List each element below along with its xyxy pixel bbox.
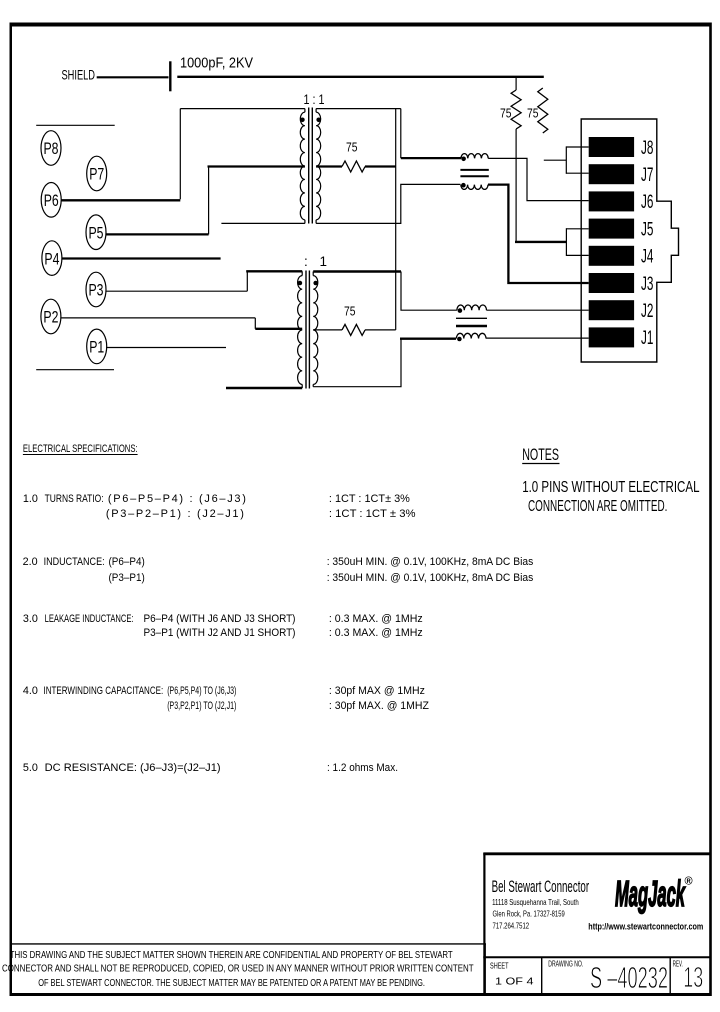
- transformer T2 primary winding: [298, 276, 303, 385]
- wire P5 to T1 primary center tap: [106, 233, 209, 235]
- pin P6: [41, 183, 61, 218]
- svg-text:CONNECTION ARE OMITTED.: CONNECTION ARE OMITTED.: [528, 498, 667, 515]
- wire unconnected segment below P1: [36, 369, 114, 371]
- svg-text:OF BEL STEWART CONNECTOR. THE: OF BEL STEWART CONNECTOR. THE SUBJECT MA…: [38, 978, 425, 989]
- svg-text:J2: J2: [641, 300, 653, 322]
- resistor R2 75 ohm shunt right: [538, 88, 548, 133]
- svg-text:ELECTRICAL SPECIFICATIONS:: ELECTRICAL SPECIFICATIONS:: [23, 443, 138, 455]
- svg-text:http://www.stewartconnector.co: http://www.stewartconnector.com: [588, 922, 703, 933]
- svg-text:S –40232: S –40232: [590, 960, 668, 995]
- choke L2 top phasing dot: [458, 308, 463, 313]
- svg-text:SHIELD: SHIELD: [62, 67, 96, 83]
- wire top rail (capacitor to resistors): [177, 76, 544, 78]
- svg-text:(P6–P5–P4) : (J6–J3): (P6–P5–P4) : (J6–J3): [108, 493, 246, 505]
- svg-text:717.264.7512: 717.264.7512: [493, 921, 530, 931]
- wire P1 unconnected: [106, 347, 226, 349]
- svg-text:INDUCTANCE:: INDUCTANCE:: [44, 556, 105, 568]
- wire R1 to J5-J4 bracket: [515, 129, 517, 242]
- wire choke L1 top to pin J6: [488, 158, 589, 200]
- svg-text:Glen Rock, Pa. 17327-8159: Glen Rock, Pa. 17327-8159: [493, 909, 565, 919]
- wire node B down to choke L2 top: [401, 272, 457, 311]
- svg-text:: 1CT : 1CT± 3%: : 1CT : 1CT± 3%: [329, 493, 410, 505]
- transformer T1 core: [308, 108, 310, 224]
- pin J8: [589, 137, 654, 159]
- svg-text:LEAKAGE INDUCTANCE:: LEAKAGE INDUCTANCE:: [45, 613, 134, 625]
- svg-text:J1: J1: [641, 327, 653, 349]
- wire T1 secondary top to choke L1 top: [400, 109, 402, 159]
- title block frame: [483, 852, 711, 855]
- resistor R3 75 ohm across T1 secondary: [316, 165, 342, 167]
- wire T2 secondary bottom to choke L2 bottom: [312, 384, 314, 386]
- svg-text:P7: P7: [89, 165, 104, 184]
- wire vertical bus V1: [395, 109, 397, 330]
- choke L1 core: [460, 169, 488, 171]
- transformer T2 primary phasing dot: [298, 281, 303, 286]
- wire unconnected segment above P8: [36, 124, 115, 126]
- wire P6 to T1 primary top: [61, 199, 180, 201]
- svg-text::: :: [304, 254, 308, 269]
- svg-text:75: 75: [346, 140, 358, 155]
- svg-text:1000pF, 2KV: 1000pF, 2KV: [180, 56, 253, 72]
- svg-text:NOTES: NOTES: [522, 445, 559, 464]
- svg-text:: 0.3 MAX. @ 1MHz: : 0.3 MAX. @ 1MHz: [329, 627, 423, 639]
- svg-text:J5: J5: [641, 218, 653, 240]
- transformer T1 primary phasing dot: [300, 118, 305, 123]
- svg-text:P3: P3: [89, 281, 104, 300]
- transformer T1 secondary phasing dot: [316, 118, 321, 123]
- svg-text:(P6–P4): (P6–P4): [109, 556, 145, 568]
- svg-text:5.0: 5.0: [23, 762, 38, 774]
- choke L1 bottom phasing dot: [461, 183, 466, 188]
- svg-text:DRAWING NO.: DRAWING NO.: [548, 960, 583, 969]
- pin J3: [589, 273, 654, 295]
- svg-text:: 30pf MAX @ 1MHz: : 30pf MAX @ 1MHz: [329, 685, 425, 697]
- svg-text:13: 13: [683, 962, 703, 994]
- svg-text:75: 75: [344, 303, 356, 318]
- svg-text:P6: P6: [44, 191, 59, 210]
- svg-text:TURNS RATIO:: TURNS RATIO:: [45, 493, 104, 505]
- svg-text:2.0: 2.0: [23, 556, 38, 568]
- svg-text:P1: P1: [89, 338, 104, 357]
- svg-text:MagJack: MagJack: [615, 873, 686, 914]
- svg-text:THIS DRAWING AND THE SUBJECT M: THIS DRAWING AND THE SUBJECT MATTER SHOW…: [10, 950, 453, 961]
- wire stub to J8-J7 bracket: [544, 159, 567, 161]
- svg-text:75: 75: [500, 106, 512, 121]
- svg-text:Bel Stewart Connector: Bel Stewart Connector: [492, 877, 590, 896]
- choke L2 bottom winding: [456, 333, 486, 338]
- transformer T2 secondary winding: [313, 276, 318, 385]
- wire choke L2 top to pin J2: [487, 309, 589, 311]
- svg-text:1 : 1: 1 : 1: [304, 92, 325, 107]
- svg-text:J7: J7: [641, 164, 653, 186]
- svg-text:1.0: 1.0: [23, 493, 38, 505]
- connector jack body J1-J8: [581, 119, 678, 362]
- disclaimer box: [10, 943, 486, 945]
- transformer T2 core: [305, 271, 307, 389]
- capacitor C1 plate: [169, 61, 171, 91]
- pin P8: [41, 131, 61, 166]
- svg-text:: 0.3 MAX. @ 1MHz: : 0.3 MAX. @ 1MHz: [329, 613, 423, 625]
- svg-text:DC RESISTANCE: (J6–J3)=(J2–J1): DC RESISTANCE: (J6–J3)=(J2–J1): [45, 762, 221, 774]
- choke L1 top phasing dot: [461, 157, 466, 162]
- wire shield lead: [97, 76, 169, 78]
- svg-text:REV.: REV.: [673, 960, 683, 969]
- svg-text:P2: P2: [43, 308, 58, 327]
- svg-text:: 30pf MAX. @ 1MHZ: : 30pf MAX. @ 1MHZ: [329, 700, 429, 712]
- wire T1 secondary top rail: [315, 109, 317, 113]
- svg-text:P5: P5: [89, 223, 104, 242]
- choke L1 bottom winding: [461, 185, 488, 190]
- wire P3 to T2 primary top: [106, 290, 247, 292]
- svg-text:1: 1: [320, 254, 328, 269]
- svg-text:: 1CT : 1CT ± 3%: : 1CT : 1CT ± 3%: [329, 508, 416, 520]
- svg-text:J3: J3: [641, 273, 653, 295]
- svg-text:75: 75: [527, 106, 539, 121]
- choke L2 top winding: [457, 305, 487, 310]
- choke L2 bottom phasing dot: [457, 337, 462, 342]
- pin J7: [589, 164, 654, 186]
- wire choke L1 bottom to pin J3: [488, 185, 589, 283]
- svg-text:3.0: 3.0: [23, 613, 38, 625]
- svg-text:: 350uH MIN. @ 0.1V, 100KHz, 8: : 350uH MIN. @ 0.1V, 100KHz, 8mA DC Bias: [327, 556, 534, 568]
- svg-text:SHEET: SHEET: [490, 962, 509, 971]
- svg-text:1 OF 4: 1 OF 4: [495, 976, 534, 988]
- junction bracket J8-J7: [566, 146, 588, 148]
- resistor R4 75 ohm across T2 secondary: [313, 329, 342, 331]
- pin J4: [589, 246, 654, 268]
- svg-text:1.0 PINS WITHOUT ELECTRICAL: 1.0 PINS WITHOUT ELECTRICAL: [522, 479, 700, 496]
- pin P1: [87, 329, 107, 364]
- svg-text:P4: P4: [44, 249, 59, 268]
- resistor R1 75 ohm shunt left: [515, 77, 517, 90]
- svg-text:CONNECTOR AND SHALL NOT BE REP: CONNECTOR AND SHALL NOT BE REPRODUCED, C…: [2, 964, 474, 975]
- pin J1: [589, 327, 654, 349]
- svg-text:(P3–P1): (P3–P1): [109, 572, 145, 584]
- svg-text:P8: P8: [44, 139, 59, 158]
- svg-text:P3–P1 (WITH J2 AND J1 SHORT): P3–P1 (WITH J2 AND J1 SHORT): [144, 627, 296, 639]
- wire T1 secondary bottom to choke L1 bottom: [315, 220, 317, 224]
- wire choke L2 bottom to pin J1: [486, 337, 589, 339]
- wire T2 primary bottom unconnected: [301, 384, 303, 388]
- pin P4: [42, 241, 62, 276]
- svg-text:J4: J4: [641, 246, 653, 268]
- pin P7: [87, 156, 107, 191]
- transformer T2 secondary phasing dot: [313, 281, 318, 286]
- pin J6: [589, 191, 654, 213]
- svg-text:: 350uH MIN. @ 0.1V, 100KHz, 8: : 350uH MIN. @ 0.1V, 100KHz, 8mA DC Bias: [327, 572, 534, 584]
- pin P3: [86, 272, 106, 307]
- svg-text:(P6,P5,P4) TO (J6,J3): (P6,P5,P4) TO (J6,J3): [167, 685, 236, 697]
- wire P2 to T2 primary center tap: [61, 317, 255, 319]
- wire P4 unconnected: [62, 257, 221, 259]
- svg-text:INTERWINDING CAPACITANCE:: INTERWINDING CAPACITANCE:: [44, 685, 164, 697]
- svg-text:J6: J6: [641, 191, 653, 213]
- svg-text:11118 Susquehanna Trail, South: 11118 Susquehanna Trail, South: [492, 897, 579, 907]
- pin J5: [589, 218, 654, 240]
- wire T1 primary bottom unconnected: [304, 220, 306, 224]
- svg-text:(P3,P2,P1) TO (J2,J1): (P3,P2,P1) TO (J2,J1): [167, 700, 236, 712]
- svg-text:J8: J8: [641, 137, 653, 159]
- pin J2: [589, 300, 654, 322]
- svg-text:(P3–P2–P1) : (J2–J1): (P3–P2–P1) : (J2–J1): [106, 508, 244, 520]
- svg-text:®: ®: [685, 876, 693, 888]
- wire T2 secondary top to node B: [312, 272, 314, 276]
- pin P5: [86, 215, 106, 250]
- choke L1 top winding: [461, 154, 488, 159]
- transformer T1 primary winding: [300, 112, 305, 220]
- transformer T1 secondary winding: [316, 112, 321, 220]
- junction bracket J5-J4: [566, 228, 588, 230]
- pin P2: [41, 299, 61, 334]
- svg-text:4.0: 4.0: [23, 685, 38, 697]
- svg-text:: 1.2 ohms Max.: : 1.2 ohms Max.: [327, 762, 398, 774]
- choke L2 core: [456, 317, 487, 319]
- svg-text:P6–P4 (WITH J6 AND J3 SHORT): P6–P4 (WITH J6 AND J3 SHORT): [144, 613, 296, 625]
